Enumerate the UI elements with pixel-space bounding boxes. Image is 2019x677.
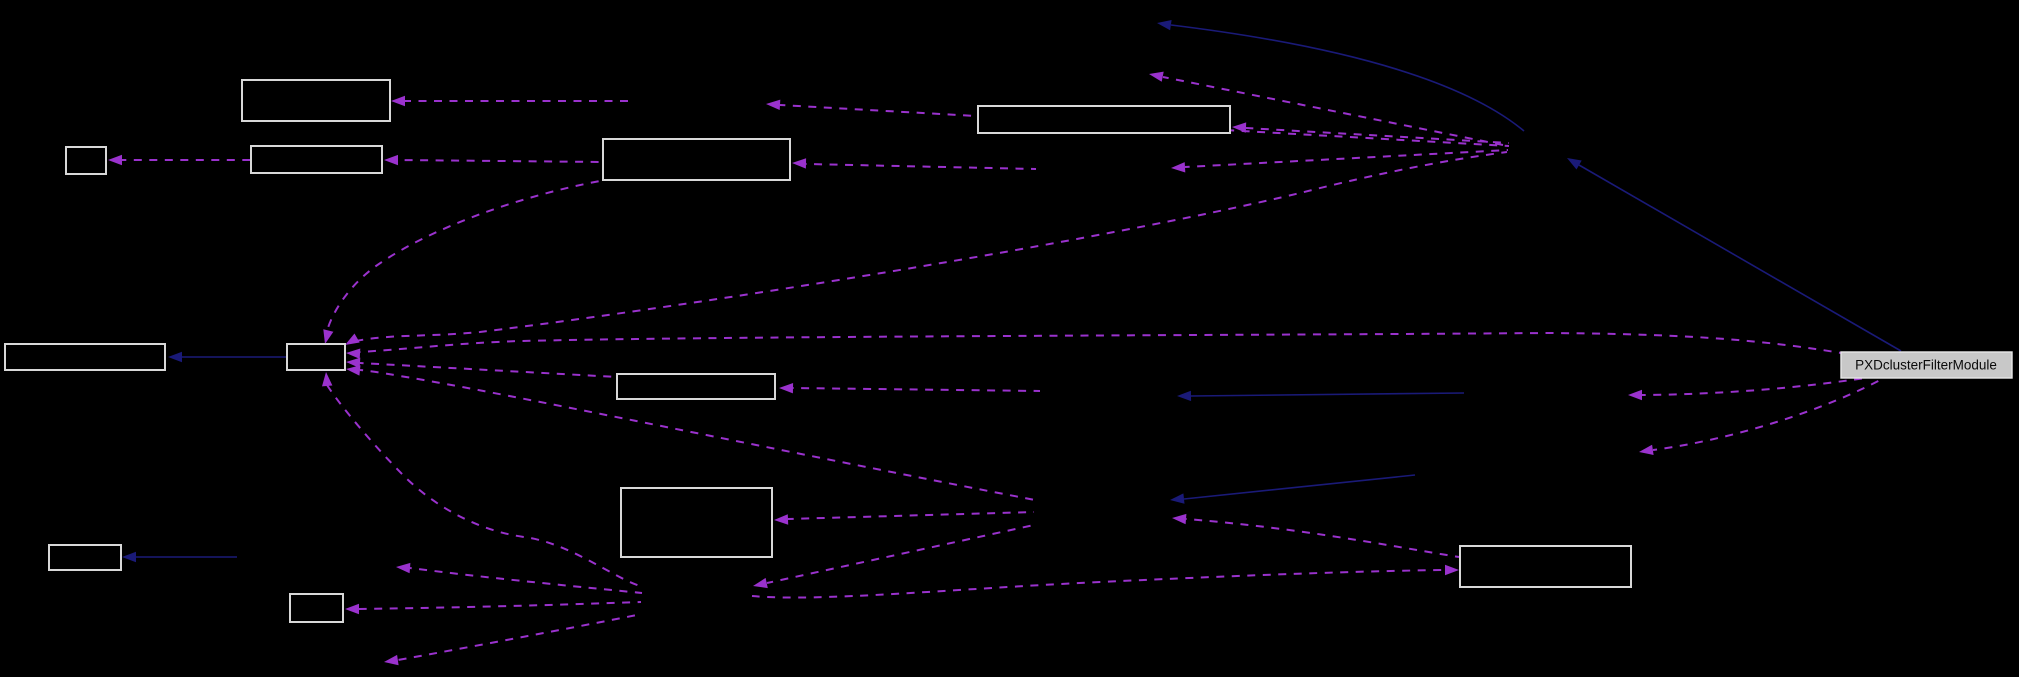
dashed usage edge edge10 xyxy=(345,152,1507,345)
dashed usage edge edge4 xyxy=(384,155,603,165)
dashed usage edge edge6 xyxy=(792,158,1036,169)
dashed usage edge edge20 xyxy=(384,614,642,665)
node PXDclusterFilterModule xyxy=(1841,352,2012,378)
dashed usage edge edge23 xyxy=(1172,514,1459,557)
node B xyxy=(978,106,1230,133)
dashed usage edge edge17 xyxy=(322,372,640,586)
node H xyxy=(49,545,121,570)
dashed usage edge edge12 xyxy=(346,358,617,377)
node S1 xyxy=(66,147,106,174)
node L1 xyxy=(5,344,165,370)
svg-text:PXDclusterFilterModule: PXDclusterFilterModule xyxy=(1855,358,1997,373)
dashed usage edge edge11 xyxy=(346,333,1841,359)
dashed usage edge edge5 xyxy=(108,155,251,165)
dashed usage edge edge7 xyxy=(1171,150,1508,173)
node I xyxy=(290,594,343,622)
node M1 xyxy=(251,146,382,173)
dashed usage edge edge18 xyxy=(396,563,642,593)
dashed usage edge edge14 xyxy=(779,383,1040,393)
dashed usage edge edge16 xyxy=(1639,378,1884,455)
dashed usage edge edge9 xyxy=(323,181,600,344)
dashed usage edge edge3 xyxy=(1232,122,1509,143)
solid inheritance edge bedge2 xyxy=(122,552,237,562)
node C xyxy=(603,139,790,180)
solid inheritance edge bedge3 xyxy=(1177,391,1464,401)
dashed usage edge edge22 xyxy=(752,565,1459,598)
dashed usage edge edge1 xyxy=(391,96,628,106)
dashed usage edge edge13 xyxy=(346,365,1035,500)
solid inheritance edge bedge4 xyxy=(1170,475,1415,504)
dashed usage edge edge24 xyxy=(774,512,1034,525)
node G xyxy=(1460,546,1631,587)
dashed usage edge edge21 xyxy=(753,525,1034,588)
node A xyxy=(242,80,390,121)
dashed usage edge edge15 xyxy=(1628,377,1872,400)
node D xyxy=(287,344,345,370)
dashed usage edge edge2 xyxy=(766,100,1509,146)
solid inheritance edge bedge1 xyxy=(168,352,286,362)
solid inheritance edge bedge5 xyxy=(1567,158,1901,351)
solid inheritance edge bedge6 xyxy=(1157,20,1524,131)
node F xyxy=(621,488,772,557)
dashed usage edge edge8 xyxy=(1149,72,1508,146)
node E xyxy=(617,374,775,399)
dashed usage edge edge19 xyxy=(345,602,641,614)
